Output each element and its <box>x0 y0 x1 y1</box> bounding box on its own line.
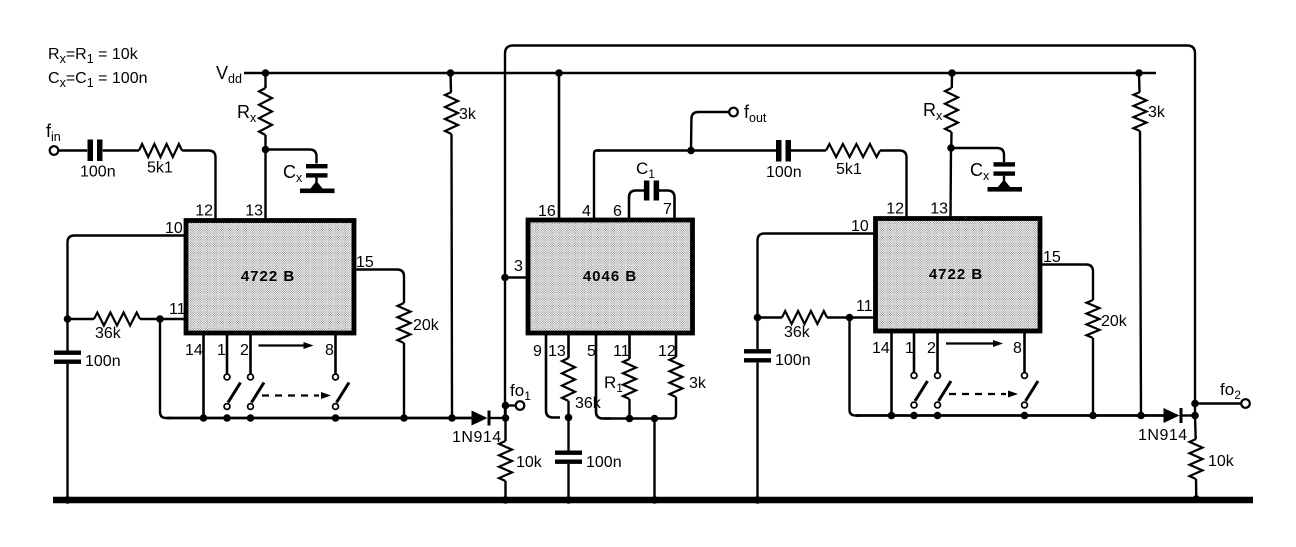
wire diode to node fo1 <box>491 417 506 419</box>
switch S3 right chip <box>1022 373 1028 379</box>
wire Vdd to 3k left <box>449 73 452 92</box>
wire node to Cx right <box>951 148 1004 162</box>
wire 20k to bus right <box>1092 338 1094 416</box>
svg-text:4046 B: 4046 B <box>583 268 637 285</box>
wire node down to bus left <box>160 319 172 418</box>
wire Vdd to Rx right <box>951 73 954 88</box>
bus node pin14 <box>200 414 208 422</box>
wire 3k to bus right <box>1140 131 1141 416</box>
svg-text:13: 13 <box>548 343 566 360</box>
bus node sw1 <box>223 414 231 422</box>
svg-text:100n: 100n <box>775 352 811 369</box>
wire pin 14 left <box>202 333 205 418</box>
wire cap to 5k1 right <box>791 149 826 151</box>
node fo2 bus <box>1191 412 1199 420</box>
node Rx-Cx-pin13 left <box>262 146 270 154</box>
wire fo1 stub <box>506 404 516 406</box>
wire pin 10 right chip <box>758 234 876 318</box>
resistor 36k mid <box>562 358 575 401</box>
node R1 bottom <box>626 415 634 423</box>
node 36k-100n left <box>64 315 72 323</box>
svg-text:13: 13 <box>930 201 948 218</box>
wire Rx to node <box>264 135 266 150</box>
node fout branch <box>687 147 695 155</box>
svg-text:8: 8 <box>325 342 334 359</box>
wire node to Cx left <box>266 150 317 164</box>
svg-text:14: 14 <box>185 342 203 359</box>
svg-text:13: 13 <box>245 203 263 220</box>
ground node 100n mid <box>565 496 573 504</box>
terminal fo2 <box>1241 399 1250 408</box>
IC U3 4722B right <box>876 219 1041 332</box>
svg-text:9: 9 <box>533 343 542 360</box>
bus node pin14 right <box>888 412 896 420</box>
node Vdd-Rx right <box>948 69 956 77</box>
wire C2 to R 5k1 <box>103 149 139 151</box>
node Rx-Cx-pin13 right <box>947 144 955 152</box>
svg-text:12: 12 <box>195 203 213 220</box>
svg-text:4: 4 <box>582 203 591 220</box>
resistor 5k1 left <box>139 144 182 157</box>
wire pin 8 stub right <box>1023 331 1026 373</box>
capacitor 100n fout <box>776 140 782 162</box>
capacitor 100n right <box>744 349 771 353</box>
svg-text:15: 15 <box>1043 249 1061 266</box>
wire 10k to ground left <box>504 481 506 500</box>
Vdd rail <box>244 72 1156 75</box>
wire 10k to ground right <box>1194 416 1197 440</box>
bus node sw8 right <box>1021 412 1029 420</box>
capacitor 100n left <box>54 351 81 355</box>
svg-text:1: 1 <box>217 342 226 359</box>
ground node 100n right <box>754 496 762 504</box>
wire 36k to pin 11 <box>140 318 186 320</box>
feedback wire fo2 node to pin 3 (top loop) <box>505 46 1195 419</box>
resistor 3k left <box>445 92 458 134</box>
node Vdd-pin16 <box>555 69 563 77</box>
node pin11-bus right <box>846 314 854 322</box>
ground node 100n left <box>64 496 72 504</box>
capacitor C1 <box>644 181 650 201</box>
resistor 10k right <box>1190 439 1203 479</box>
wire 36k to pin 11 right <box>827 316 876 318</box>
bus node 3k left <box>448 414 456 422</box>
capacitor Cx left <box>306 164 328 168</box>
wire 3k to bus left <box>450 134 453 418</box>
wire 5k1 to pin 12 <box>182 151 216 222</box>
svg-text:3: 3 <box>514 258 523 275</box>
ground node 10k left <box>502 496 510 504</box>
resistor 10k left <box>499 441 512 481</box>
capacitor 100n input <box>88 140 94 162</box>
wire R1 to node <box>628 399 630 419</box>
terminal fout <box>729 108 738 117</box>
wire pin 11 mid / R1 <box>628 333 631 359</box>
wire bottom joining segment mid <box>604 417 668 420</box>
svg-text:11: 11 <box>169 301 186 318</box>
wire fout branch <box>691 112 729 151</box>
svg-text:100n: 100n <box>586 454 622 471</box>
switch S1 right chip <box>911 373 917 379</box>
ground node 10k right <box>1193 495 1201 503</box>
resistor 3k mid <box>670 357 683 397</box>
ground node mid <box>651 496 659 504</box>
wire Rx to node right <box>950 132 953 148</box>
switch S2 left chip <box>248 374 254 380</box>
wire pin4 to cap 100n <box>597 149 777 151</box>
svg-text:8: 8 <box>1013 340 1022 357</box>
node Vdd-3k right <box>1135 69 1143 77</box>
wire pin 15 right <box>1040 265 1093 301</box>
svg-text:16: 16 <box>538 203 556 220</box>
svg-text:1N914: 1N914 <box>452 429 502 446</box>
svg-text:7: 7 <box>663 201 672 218</box>
wire Vdd to Rx <box>264 73 266 88</box>
dashed arrow switches left <box>262 394 319 396</box>
bus node 20k right <box>1089 412 1097 420</box>
wire node to 36k <box>68 318 95 320</box>
IC U1 4722B left <box>186 221 354 334</box>
wire pin 1 stub right <box>913 331 916 373</box>
resistor R1 <box>623 359 636 399</box>
wire node to 36k right <box>758 316 783 318</box>
IC U2 4046B <box>528 220 693 333</box>
node fo2 stub <box>1191 400 1199 408</box>
wire 20k to bus <box>403 343 405 418</box>
svg-text:10k: 10k <box>516 454 543 471</box>
wire pin 5 <box>596 333 610 419</box>
wire node to pin 13 right <box>949 148 952 219</box>
bus node sw2 right <box>934 412 942 420</box>
resistor 36k left <box>94 313 140 326</box>
node fo1 stub <box>502 402 510 410</box>
wire pin 6 to C1 <box>629 191 644 222</box>
svg-text:2: 2 <box>240 342 249 359</box>
svg-text:3k: 3k <box>459 106 477 123</box>
resistor 5k1 right <box>826 144 880 157</box>
node fo1 bus <box>502 414 510 422</box>
wire pin 13 mid <box>567 333 570 358</box>
svg-text:5: 5 <box>587 343 596 360</box>
svg-text:100n: 100n <box>766 164 802 181</box>
wire pin 3 stub <box>505 276 528 279</box>
svg-text:1: 1 <box>905 340 914 357</box>
wire node down to bus right <box>850 318 862 416</box>
node 36k-100n right <box>754 314 762 322</box>
diode D2 1N914 <box>1164 408 1180 423</box>
terminal fo1 <box>516 401 525 410</box>
wire 3k mid to segment <box>668 397 676 419</box>
switch S2 right chip <box>935 373 941 379</box>
dashed arrow switches right <box>949 393 1006 395</box>
node 36k-100n mid <box>565 414 573 422</box>
svg-text:3k: 3k <box>689 375 707 392</box>
svg-text:5k1: 5k1 <box>147 160 173 177</box>
wire pin 2 stub left <box>249 333 252 374</box>
svg-text:10k: 10k <box>1208 453 1235 470</box>
wire fo2 stub <box>1195 402 1241 404</box>
bus node sw2 <box>247 414 255 422</box>
bus node sw1 right <box>910 412 918 420</box>
wire pin 7 to C1 <box>659 191 675 222</box>
svg-text:6: 6 <box>613 203 622 220</box>
svg-text:20k: 20k <box>413 317 440 334</box>
bus wire right chip <box>856 414 1164 417</box>
svg-text:36k: 36k <box>784 324 811 341</box>
resistor 36k right <box>782 311 827 324</box>
svg-text:12: 12 <box>886 201 904 218</box>
resistor 20k left <box>398 303 411 343</box>
wire node to pin 13 left <box>264 150 266 222</box>
wire pin 2 stub right <box>936 331 939 373</box>
wire pin 16 <box>558 73 561 221</box>
arrow pins 2 to 8 left <box>259 344 305 346</box>
wire 5k1 to pin 12 right <box>880 151 907 220</box>
wire pin 8 stub left <box>334 333 337 374</box>
node pin11-bus left <box>156 315 164 323</box>
wire 36k mid to node <box>567 401 569 418</box>
svg-text:100n: 100n <box>85 353 121 370</box>
svg-text:10: 10 <box>165 220 183 237</box>
svg-text:11: 11 <box>856 298 873 315</box>
capacitor Cx right <box>994 162 1016 166</box>
svg-text:10: 10 <box>851 218 869 235</box>
svg-text:11: 11 <box>613 343 630 360</box>
wire pin 1 stub left <box>226 333 229 374</box>
wire pin 10 left chip <box>68 236 187 320</box>
diode D1 1N914 <box>472 411 488 426</box>
node Vdd-3k left <box>447 69 455 77</box>
wire pin 14 right <box>890 331 893 416</box>
svg-text:4722 B: 4722 B <box>241 268 295 285</box>
node mid ground drop <box>651 415 659 423</box>
node Vdd-Rx left <box>262 69 270 77</box>
svg-text:1N914: 1N914 <box>1138 427 1188 444</box>
resistor Rx right <box>945 88 958 132</box>
svg-text:36k: 36k <box>575 395 602 412</box>
svg-text:100n: 100n <box>80 164 116 181</box>
wire pin 12 mid / 3k <box>675 333 678 357</box>
bus wire left chip <box>167 417 472 420</box>
svg-text:20k: 20k <box>1101 313 1128 330</box>
wire fo1 node up <box>504 406 506 419</box>
svg-text:3k: 3k <box>1148 104 1166 121</box>
wire mid drop to ground <box>653 419 655 501</box>
wire Vdd to 3k right <box>1138 73 1141 92</box>
svg-text:36k: 36k <box>95 325 122 342</box>
node pin3 <box>501 274 509 282</box>
bus node 3k right <box>1137 412 1145 420</box>
switch S1 left chip <box>224 374 230 380</box>
svg-text:4722 B: 4722 B <box>929 266 983 283</box>
capacitor 100n mid <box>555 451 582 455</box>
ground rail <box>53 497 1253 504</box>
svg-text:2: 2 <box>927 340 936 357</box>
resistor 3k right <box>1134 92 1147 131</box>
wire diode to node fo2 <box>1183 414 1196 416</box>
svg-text:5k1: 5k1 <box>836 161 862 178</box>
bus node sw8 <box>332 414 340 422</box>
terminal fin <box>50 146 59 155</box>
svg-text:14: 14 <box>872 340 890 357</box>
wire pin 9 <box>546 333 560 418</box>
wire fin to C2 <box>59 149 88 151</box>
wire pin 15 left <box>354 270 404 304</box>
svg-text:15: 15 <box>356 254 374 271</box>
wire pin 4 <box>594 151 600 222</box>
switch S3 left chip <box>333 374 339 380</box>
arrow pins 2 to 8 right <box>946 342 994 344</box>
resistor 20k right <box>1087 300 1100 338</box>
resistor Rx left <box>259 88 272 135</box>
bus node 20k left <box>400 414 408 422</box>
